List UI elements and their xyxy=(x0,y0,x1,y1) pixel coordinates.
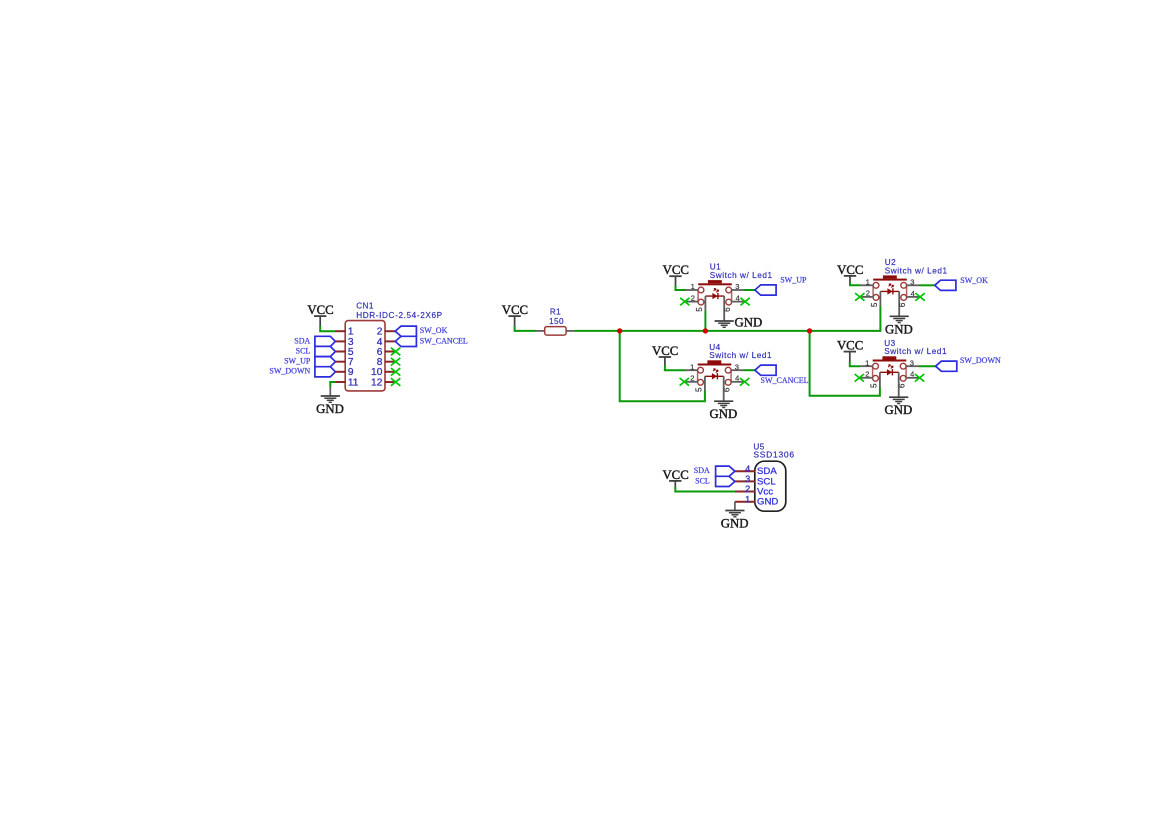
CN1 pin numbers xyxy=(348,327,383,389)
wire VCC to U2 pin 1 xyxy=(850,276,861,285)
svg-text:Switch w/ Led1: Switch w/ Led1 xyxy=(885,266,948,275)
net label SW_OK xyxy=(420,326,448,335)
svg-text:150: 150 xyxy=(549,317,564,326)
svg-text:2: 2 xyxy=(691,293,695,302)
svg-text:1: 1 xyxy=(690,362,694,371)
junction dot at U4 branch xyxy=(617,328,622,333)
svg-text:2: 2 xyxy=(866,289,870,298)
wire U2 pin 3 to net flag xyxy=(919,284,934,286)
power symbol VCC (U5) xyxy=(662,468,688,482)
U4 pin numbers xyxy=(690,362,739,392)
U1 pin stubs xyxy=(686,290,745,321)
wire main VCC bus from R1 xyxy=(575,306,881,331)
svg-text:GND: GND xyxy=(885,322,913,336)
U3 reference label xyxy=(884,339,895,348)
svg-text:2: 2 xyxy=(865,370,869,379)
U1 reference label xyxy=(710,263,721,272)
net label SDA xyxy=(294,336,310,345)
svg-text:4: 4 xyxy=(735,374,739,383)
power symbol VCC (CN1) xyxy=(307,303,333,317)
svg-text:SW_DOWN: SW_DOWN xyxy=(269,367,310,376)
net label SW_UP xyxy=(780,276,807,285)
net flag SCL at U5 xyxy=(716,476,735,486)
no-connect X (U4 pin 2) xyxy=(680,378,689,386)
CN1 reference label xyxy=(356,301,374,310)
svg-text:4: 4 xyxy=(736,294,740,303)
net flag SW_CANCEL at U4 xyxy=(755,365,776,375)
svg-text:VCC: VCC xyxy=(662,468,688,482)
svg-text:SCL: SCL xyxy=(695,476,710,485)
U2 pin numbers xyxy=(866,277,915,307)
wire U5 pin 1 (GND) to GND xyxy=(734,502,736,511)
net label SW_DOWN xyxy=(269,367,310,376)
power symbol VCC (R1) xyxy=(502,303,528,317)
svg-text:6: 6 xyxy=(898,383,907,388)
svg-text:6: 6 xyxy=(723,387,732,392)
svg-text:SW_OK: SW_OK xyxy=(960,276,988,285)
svg-text:3: 3 xyxy=(735,282,739,291)
power symbol VCC (U4) xyxy=(652,344,678,358)
wire VCC to U1 pin 1 xyxy=(676,276,686,290)
svg-text:GND: GND xyxy=(316,402,344,416)
svg-text:1: 1 xyxy=(866,277,870,286)
no-connect X (U3 pin 2) xyxy=(855,374,864,382)
U1 value label Switch w/ Led1 xyxy=(710,271,773,280)
svg-text:SDA: SDA xyxy=(694,466,710,475)
svg-text:5: 5 xyxy=(695,307,704,312)
wire CN1 pin 11 to GND xyxy=(330,382,335,396)
no-connect X (U2 pin 4) xyxy=(915,293,924,301)
ground symbol GND (U2) xyxy=(885,316,913,336)
svg-text:6: 6 xyxy=(723,307,732,312)
svg-text:GND: GND xyxy=(710,407,738,421)
net flag SW_DOWN at CN1 xyxy=(315,367,336,377)
svg-text:R1: R1 xyxy=(550,308,561,317)
U3 value label Switch w/ Led1 xyxy=(884,347,947,356)
ground symbol GND (CN1) xyxy=(316,396,344,416)
no-connect X (U1 pin 2) xyxy=(680,298,689,306)
CN1 left pin stubs (1,3,5,7,9,11) xyxy=(335,331,345,382)
wire branch to U1 pin 5 xyxy=(704,311,706,331)
svg-text:3: 3 xyxy=(735,362,739,371)
svg-text:GND: GND xyxy=(721,517,749,531)
svg-text:VCC: VCC xyxy=(307,303,333,317)
svg-text:SW_UP: SW_UP xyxy=(780,276,807,285)
svg-text:GND: GND xyxy=(735,316,763,330)
junction dot at U1 branch xyxy=(703,328,708,333)
wire VCC to U4 pin 1 xyxy=(665,357,685,370)
pushbutton switch U3 body xyxy=(873,356,907,381)
U3 pin stubs xyxy=(860,366,919,397)
resistor R1 xyxy=(535,327,575,336)
net flag SDA at CN1 xyxy=(315,336,336,346)
svg-text:11: 11 xyxy=(348,377,359,388)
U5 pin numbers xyxy=(745,464,750,505)
svg-text:SW_OK: SW_OK xyxy=(420,326,448,335)
svg-text:CN1: CN1 xyxy=(356,301,374,310)
svg-text:1: 1 xyxy=(745,494,750,504)
svg-text:SCL: SCL xyxy=(296,346,311,355)
CN1 right pin stubs (2,4,6,8,10,12) xyxy=(385,331,396,382)
connector CN1 body xyxy=(345,321,385,391)
power symbol VCC (U2) xyxy=(837,263,863,277)
svg-text:SW_DOWN: SW_DOWN xyxy=(960,356,1001,365)
svg-text:GND: GND xyxy=(757,497,778,508)
net flag SW_OK at U2 xyxy=(935,280,956,290)
svg-text:HDR-IDC-2.54-2X6P: HDR-IDC-2.54-2X6P xyxy=(356,311,443,320)
net flag SDA at U5 xyxy=(716,466,735,476)
ground symbol GND (U4) xyxy=(710,401,738,421)
svg-text:2: 2 xyxy=(690,374,694,383)
net label SCL xyxy=(296,346,311,355)
svg-text:4: 4 xyxy=(745,464,750,474)
no-connect X (CN1 pin 8) xyxy=(391,358,400,366)
net flag SW_OK at CN1 xyxy=(395,326,416,336)
net flag SW_UP at CN1 xyxy=(315,357,336,367)
U4 reference label xyxy=(709,343,720,352)
svg-text:GND: GND xyxy=(885,403,913,417)
svg-text:VCC: VCC xyxy=(837,263,863,277)
ground symbol GND (U3) xyxy=(885,397,913,417)
wire VCC to U5 pin 2 (Vcc) xyxy=(675,481,735,492)
svg-text:SSD1306: SSD1306 xyxy=(753,449,794,459)
no-connect X (CN1 pin 6) xyxy=(391,348,400,356)
svg-text:VCC: VCC xyxy=(652,344,678,358)
net flag SW_CANCEL at CN1 xyxy=(395,336,416,346)
U3 pin numbers xyxy=(865,358,914,388)
net label SW_UP xyxy=(284,357,311,366)
wire VCC to CN1 pin 1 xyxy=(320,316,335,331)
svg-text:SDA: SDA xyxy=(294,336,310,345)
R1 reference label xyxy=(550,308,561,317)
ground symbol GND (U5) xyxy=(721,511,749,531)
net flag SCL at CN1 xyxy=(315,346,336,356)
power symbol VCC (U3) xyxy=(837,339,863,353)
net flag SW_DOWN at U3 xyxy=(936,361,957,371)
U5 value label SSD1306 xyxy=(753,449,794,459)
no-connect X (U4 pin 4) xyxy=(740,378,749,386)
U2 reference label xyxy=(885,258,896,267)
wire U4 pin 3 to net flag xyxy=(744,369,755,371)
U4 value label Switch w/ Led1 xyxy=(709,351,772,360)
svg-text:3: 3 xyxy=(745,474,750,484)
svg-text:VCC: VCC xyxy=(837,339,863,353)
svg-text:5: 5 xyxy=(870,302,879,307)
U5 pin names SDA SCL Vcc GND xyxy=(757,466,778,508)
no-connect X (U1 pin 4) xyxy=(740,298,749,306)
net label SCL at U5 xyxy=(695,476,710,485)
net label SW_OK xyxy=(960,276,988,285)
pushbutton switch U4 body xyxy=(698,360,732,385)
no-connect X (U3 pin 4) xyxy=(915,374,924,382)
svg-text:5: 5 xyxy=(694,387,703,392)
U5 reference label xyxy=(753,443,764,452)
U2 value label Switch w/ Led1 xyxy=(885,266,948,275)
svg-text:SW_CANCEL: SW_CANCEL xyxy=(761,376,809,385)
no-connect X (CN1 pin 10) xyxy=(391,368,400,376)
svg-text:4: 4 xyxy=(911,289,915,298)
wire VCC to U3 pin 1 xyxy=(850,352,860,367)
wire branch to U3 pin 5 xyxy=(810,331,880,396)
svg-text:3: 3 xyxy=(910,358,914,367)
svg-text:Switch w/ Led1: Switch w/ Led1 xyxy=(710,271,773,280)
ground symbol GND (U1) xyxy=(715,316,763,330)
net label SW_CANCEL xyxy=(420,336,468,345)
net label SW_DOWN xyxy=(960,356,1001,365)
junction dot at U3 branch xyxy=(807,328,812,333)
svg-text:6: 6 xyxy=(898,302,907,307)
svg-text:4: 4 xyxy=(910,370,914,379)
display module U5 body xyxy=(755,461,786,511)
U2 pin stubs xyxy=(861,285,920,316)
svg-text:SW_UP: SW_UP xyxy=(284,357,311,366)
U4 pin stubs xyxy=(685,370,744,401)
wire branch to U4 pin 5 xyxy=(620,331,705,401)
svg-text:VCC: VCC xyxy=(502,303,528,317)
svg-text:SW_CANCEL: SW_CANCEL xyxy=(420,336,468,345)
svg-text:Switch w/ Led1: Switch w/ Led1 xyxy=(709,351,772,360)
net label SDA at U5 xyxy=(694,466,710,475)
U5 pin stubs xyxy=(735,471,755,502)
net flag SW_UP at U1 xyxy=(755,285,776,295)
svg-text:5: 5 xyxy=(869,383,878,388)
no-connect X (U2 pin 2) xyxy=(855,293,864,301)
svg-text:Switch w/ Led1: Switch w/ Led1 xyxy=(884,347,947,356)
no-connect X (CN1 pin 12) xyxy=(391,378,400,386)
svg-text:3: 3 xyxy=(910,277,914,286)
wire U3 pin 3 to net flag xyxy=(919,365,936,367)
pushbutton switch U1 body xyxy=(698,280,732,305)
svg-text:1: 1 xyxy=(865,358,869,367)
power symbol VCC (U1) xyxy=(663,263,689,277)
svg-text:12: 12 xyxy=(371,377,383,388)
svg-text:1: 1 xyxy=(691,282,695,291)
U1 pin numbers xyxy=(691,282,740,312)
net label SW_CANCEL xyxy=(761,376,809,385)
wire U1 pin 3 to net flag xyxy=(744,289,755,291)
svg-text:2: 2 xyxy=(745,484,750,494)
CN1 value label HDR-IDC-2.54-2X6P xyxy=(356,311,443,320)
R1 value label 150 xyxy=(549,317,564,326)
pushbutton switch U2 body xyxy=(873,275,907,300)
svg-text:VCC: VCC xyxy=(663,263,689,277)
wire VCC to R1 xyxy=(515,316,536,331)
